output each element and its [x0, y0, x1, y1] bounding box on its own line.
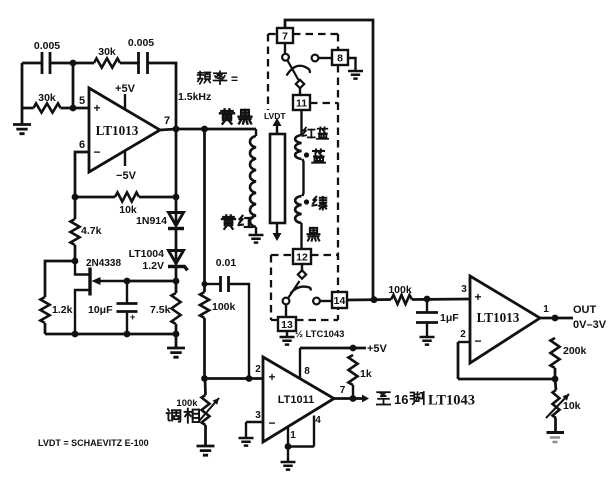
- wire: [303, 159, 304, 196]
- wire: [175, 197, 178, 212]
- wire: [175, 281, 178, 293]
- node: [201, 126, 208, 133]
- potentiometer R12 10k: [553, 390, 560, 418]
- wire: [45, 261, 75, 297]
- switch S1 arm: [284, 43, 286, 53]
- svg-text:1.2V: 1.2V: [142, 260, 164, 272]
- winding dot: [304, 199, 309, 204]
- pin 7 box: [277, 28, 293, 43]
- node 2N4338 drain: [72, 258, 79, 265]
- dashed box LTC1043 upper: [268, 34, 338, 320]
- resistor R6 7.5k: [171, 293, 180, 324]
- wire: [300, 223, 302, 249]
- svg-text:LT1011: LT1011: [278, 394, 315, 406]
- svg-text:6: 6: [79, 139, 85, 151]
- svg-text:3: 3: [255, 410, 261, 421]
- wire: [139, 196, 176, 199]
- ground: [204, 425, 207, 445]
- svg-text:8: 8: [304, 366, 310, 377]
- wire: [21, 63, 24, 108]
- svg-text:3: 3: [461, 284, 467, 295]
- LVDT core: [270, 134, 285, 223]
- svg-text:100k: 100k: [212, 301, 236, 313]
- capacitor C3 10uF: [126, 281, 128, 303]
- wire: [299, 88, 301, 95]
- ground: [420, 337, 435, 345]
- comparator U2 LT1011: [263, 357, 334, 442]
- svg-text:=: =: [231, 72, 238, 86]
- node OSC out: [173, 126, 180, 133]
- svg-text:1.2k: 1.2k: [52, 304, 73, 316]
- svg-text:100k: 100k: [176, 398, 198, 409]
- svg-text:7.5k: 7.5k: [150, 304, 171, 316]
- node: [202, 281, 208, 287]
- svg-text:−: −: [268, 416, 275, 430]
- node: [350, 395, 357, 402]
- node: [72, 331, 79, 338]
- svg-text:7: 7: [282, 30, 288, 42]
- wire: [50, 62, 94, 65]
- svg-text:0.01: 0.01: [216, 257, 237, 269]
- wire: [352, 385, 354, 399]
- wire pin3: [246, 421, 263, 423]
- wire gate row: [127, 280, 176, 283]
- svg-text:5: 5: [79, 95, 85, 107]
- wire OSC out to LVDT: [176, 128, 256, 131]
- svg-text:1N914: 1N914: [136, 215, 167, 227]
- wire: [204, 379, 207, 396]
- svg-text:LVDT = SCHAEVITZ E-100: LVDT = SCHAEVITZ E-100: [38, 438, 149, 448]
- pin 13 box: [278, 317, 296, 331]
- node: [173, 278, 180, 285]
- svg-text:1k: 1k: [360, 368, 372, 380]
- resistor R4 4.7k: [70, 219, 79, 245]
- feedback wire: [457, 342, 460, 379]
- wire: [554, 368, 557, 379]
- wire: [61, 107, 74, 110]
- potentiometer R9 100k phase: [202, 395, 210, 425]
- wire pin1 out: [540, 317, 573, 320]
- wire pin4: [313, 416, 315, 447]
- ground: [21, 108, 24, 124]
- ground: [245, 422, 247, 437]
- svg-text:0V–3V: 0V–3V: [573, 319, 607, 331]
- switch S1 throw contact: [312, 55, 319, 62]
- node: [350, 345, 357, 352]
- resistor R2 30k: [34, 103, 61, 112]
- node: [424, 296, 431, 303]
- node: [173, 331, 180, 338]
- svg-text:+: +: [268, 370, 275, 384]
- inductor L3 secondary lower: [295, 196, 301, 223]
- resistor R8 100k: [200, 292, 209, 318]
- node A top: [70, 60, 77, 67]
- svg-text:14: 14: [334, 295, 346, 307]
- svg-text:30k: 30k: [38, 92, 56, 104]
- wire: [555, 379, 556, 390]
- node: [552, 315, 559, 322]
- wire pin7: [160, 129, 176, 130]
- capacitor C1 0.005: [42, 52, 50, 74]
- ground: [175, 334, 178, 347]
- label pinlv 频率=: [198, 72, 211, 84]
- wire: [44, 323, 47, 334]
- wire pin7 out: [334, 397, 362, 400]
- label lan 蓝: [312, 149, 325, 162]
- svg-text:LT1013: LT1013: [96, 123, 139, 138]
- label huang-hei 黄黑: [220, 109, 234, 123]
- ground: [348, 58, 356, 70]
- capacitor C2 0.005: [139, 52, 148, 74]
- ground faded: [547, 431, 565, 434]
- pin 12 box: [293, 249, 311, 264]
- diode D2 LT1004 1.2V: [169, 251, 184, 264]
- wire: [22, 107, 34, 110]
- node: [371, 296, 378, 303]
- node: [285, 443, 292, 450]
- svg-text:−5V: −5V: [116, 170, 137, 182]
- svg-text:LVDT: LVDT: [264, 111, 286, 121]
- wire pin14 out: [347, 298, 391, 301]
- wire: [300, 110, 302, 135]
- resistor R11 200k: [550, 338, 559, 368]
- dashed box LTC1043 lower: [271, 255, 338, 320]
- resistor R10 1k: [348, 355, 357, 385]
- svg-text:+: +: [93, 101, 100, 115]
- node: [201, 375, 208, 382]
- switch S2 throw contact: [313, 298, 320, 305]
- svg-text:100k: 100k: [388, 284, 412, 296]
- wire: [72, 63, 75, 108]
- diode D1 1N914: [169, 213, 184, 226]
- node: [124, 278, 131, 285]
- switch S2 arm: [301, 264, 303, 271]
- wire pin6: [75, 152, 89, 197]
- svg-text:1μF: 1μF: [440, 312, 459, 324]
- pin 11 box: [293, 95, 310, 110]
- label huang-hong 黄红: [222, 215, 235, 229]
- node: [72, 194, 79, 201]
- wire to pin2: [205, 377, 264, 380]
- wire pin1: [287, 428, 289, 447]
- wire: [203, 129, 206, 292]
- resistor R1 30k: [94, 58, 120, 67]
- op-amp U3 LT1013: [470, 276, 540, 363]
- node A bottom: [70, 105, 77, 112]
- wire: [288, 445, 314, 447]
- node: [246, 375, 253, 382]
- wire +5V rail: [300, 347, 366, 350]
- wire: [148, 63, 177, 129]
- svg-text:+: +: [474, 290, 481, 304]
- svg-text:2: 2: [460, 329, 466, 340]
- wire: [412, 298, 470, 301]
- svg-text:½ LTC1043: ½ LTC1043: [295, 329, 344, 340]
- svg-text:2: 2: [255, 364, 261, 375]
- svg-text:7: 7: [164, 115, 170, 127]
- -5V supply: [124, 151, 126, 166]
- svg-text:LT1004: LT1004: [129, 248, 165, 260]
- node: [552, 376, 559, 383]
- ground: [287, 447, 289, 462]
- svg-text:7: 7: [340, 385, 346, 396]
- wire: [74, 245, 77, 261]
- svg-text:0.005: 0.005: [34, 40, 60, 52]
- transistor Q1 2N4338: [75, 261, 89, 275]
- dashed lead pin11: [310, 102, 338, 104]
- node: [173, 194, 180, 201]
- wire: [554, 418, 557, 431]
- svg-text:OUT: OUT: [573, 304, 597, 316]
- wire: [175, 268, 178, 281]
- wire: [175, 324, 178, 334]
- svg-text:2N4338: 2N4338: [86, 258, 121, 269]
- inductor L2 secondary upper: [295, 135, 301, 159]
- svg-text:13: 13: [281, 319, 293, 331]
- svg-text:10μF: 10μF: [88, 304, 113, 316]
- switch S2 pole contact: [283, 298, 290, 305]
- svg-text:+5V: +5V: [367, 343, 388, 355]
- svg-text:10k: 10k: [119, 204, 137, 216]
- pin 14 box: [332, 292, 347, 308]
- svg-text:−: −: [474, 334, 481, 348]
- label to pin16 LT1043: [377, 392, 390, 404]
- svg-text:30k: 30k: [98, 46, 116, 58]
- ground: [286, 331, 288, 336]
- wire: [175, 129, 178, 197]
- label hong-lan 红蓝: [303, 128, 315, 138]
- svg-text:11: 11: [296, 97, 307, 109]
- wire bottom rail: [45, 333, 176, 336]
- svg-text:10k: 10k: [563, 400, 581, 412]
- svg-text:16: 16: [394, 392, 408, 407]
- wire: [74, 197, 77, 219]
- label hei 黑: [308, 228, 320, 241]
- resistor R7 100k: [391, 295, 412, 304]
- svg-text:200k: 200k: [563, 345, 587, 357]
- wire: [175, 229, 178, 250]
- svg-text:LT1013: LT1013: [477, 310, 520, 325]
- label tiaoxiang 调相: [167, 409, 181, 422]
- svg-text:1: 1: [543, 304, 549, 315]
- svg-text:12: 12: [296, 251, 308, 263]
- +5V supply: [124, 94, 126, 109]
- svg-text:LT1043: LT1043: [428, 393, 475, 409]
- arrow: [362, 395, 369, 403]
- ground: [255, 227, 257, 234]
- wire top: [285, 20, 373, 299]
- wire: [120, 62, 138, 65]
- svg-text:1.5kHz: 1.5kHz: [178, 91, 211, 103]
- wire: [203, 318, 206, 379]
- wire pin8: [299, 348, 301, 378]
- resistor R3 10k: [115, 192, 139, 201]
- svg-text:−: −: [93, 145, 100, 159]
- node: [124, 331, 131, 338]
- capacitor C4 1uF: [426, 299, 428, 312]
- op-amp U1 LT1013: [89, 88, 160, 172]
- resistor R5 1.2k: [40, 297, 49, 323]
- inductor L1 LVDT primary: [255, 129, 257, 136]
- wire pin5: [73, 107, 89, 110]
- wire: [75, 196, 115, 199]
- svg-text:+5V: +5V: [115, 83, 136, 95]
- svg-text:1: 1: [290, 430, 296, 441]
- svg-text:4.7k: 4.7k: [81, 225, 102, 237]
- pin 8 box: [332, 50, 348, 65]
- winding dot: [304, 152, 309, 157]
- wire: [22, 62, 42, 65]
- svg-text:8: 8: [337, 52, 343, 64]
- svg-text:0.005: 0.005: [128, 37, 154, 49]
- svg-text:4: 4: [315, 415, 321, 426]
- wire pin2: [458, 341, 470, 343]
- svg-text:+: +: [130, 312, 135, 322]
- label lu 绿: [312, 197, 326, 210]
